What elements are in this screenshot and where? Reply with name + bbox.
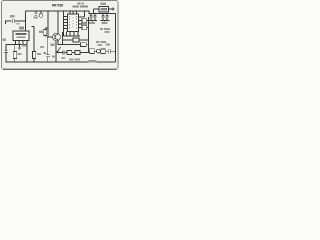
wire IC1 to R2 [32,27,35,52]
filter F2 [82,25,87,30]
border frame [2,1,119,70]
label R2 [37,53,41,55]
resistor R6 [73,38,79,42]
paper background [0,0,120,71]
wire Q1 collector to rail [57,28,59,34]
wire filters bus [87,17,89,33]
resistor R7 [81,43,87,47]
capacitor C4 at rail [34,11,37,15]
regulator U3 [99,7,109,13]
electrolytic C6 [46,37,50,62]
wire top rail [26,10,90,12]
transistor Q1 [53,33,61,41]
wire collector drop [48,11,53,37]
label R4 [51,44,55,46]
capacitor C13 [105,14,108,21]
label C10 C11 [89,22,95,24]
resistor R5 [67,51,72,55]
label C1 [10,15,15,18]
electrolytic C9 [109,49,116,54]
resistor R8 [75,51,80,55]
junction dots bottom rail [5,61,6,62]
wire right rail [89,11,116,14]
label U2 line1 [78,3,81,5]
antenna input terminal [6,21,12,24]
capacitor C3 [18,45,21,50]
wire bottom ground rail [6,61,116,63]
label U3 [101,3,107,5]
U2 pin numbers [68,16,70,30]
ground bar left pair [89,21,98,23]
wire wiper out [56,52,63,54]
U2 top pins [70,11,77,14]
label R3 [39,31,43,33]
resistor R3 [45,28,48,30]
capacitor C1 [13,19,26,23]
wire bus right [88,33,90,53]
label C9 [106,44,111,46]
trimmer C5 [40,11,42,13]
label C7 [52,56,56,58]
svg-text:RF 510: RF 510 [52,4,63,8]
label IC1 [19,27,24,30]
U2 left pins [64,11,68,36]
jack J1 [90,49,95,54]
wire below IC1 [6,44,27,46]
wire right bus [115,14,117,63]
ground bar right pair [101,21,110,23]
IC U1 bottom pins [16,41,28,45]
terminal +9V [112,8,115,11]
capacitor C8 [63,50,67,54]
wire below U2 [63,32,81,37]
label C4 [34,17,39,19]
capacitor C12 [101,14,104,21]
capacitor C2 left [4,45,7,63]
capacitor C11 [93,14,96,21]
wire row2 [63,39,74,41]
capacitor C10 [89,14,92,21]
resistor R2 [32,52,35,59]
label C6 plus [43,52,46,54]
label R5 [69,58,74,60]
wire U3 input [94,9,100,14]
resistor R1 [14,45,16,52]
wire pin4 down [26,45,28,63]
label C12 C13 [102,22,108,24]
IC U2 DIP box [68,14,79,32]
wire rail drop to IC1 [25,11,27,31]
potentiometer P1 arrow [57,47,61,52]
label U2 line2 [73,5,80,7]
U2 right pins [79,11,85,28]
filter F1 [82,19,87,23]
label J1 [89,60,97,63]
wire U3 output [109,8,114,10]
IC U1 box [13,31,29,41]
wire bus left [62,32,64,45]
label R1 [18,53,22,55]
wire row3 [60,44,81,46]
label U1 inside [16,33,27,35]
wire Q1 emitter [58,40,60,44]
label C2 [3,39,7,41]
